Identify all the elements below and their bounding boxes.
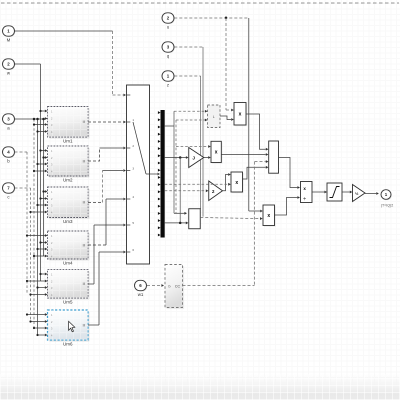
svg-text:J: J (192, 156, 195, 161)
svg-text:2: 2 (132, 144, 134, 148)
svg-text:w: w (7, 71, 11, 76)
svg-text:3: 3 (132, 167, 134, 171)
svg-text:6: 6 (132, 248, 134, 252)
svg-text:CC: CC (175, 285, 181, 289)
svg-text:Um1: Um1 (63, 139, 73, 144)
svg-text:b: b (7, 159, 10, 164)
svg-text:M: M (7, 38, 11, 43)
svg-text:z: z (167, 83, 169, 88)
svg-text:Um3: Um3 (63, 219, 73, 224)
svg-text:Um5: Um5 (63, 300, 73, 305)
svg-text:÷: ÷ (303, 198, 306, 203)
svg-text:x: x (239, 112, 242, 118)
svg-text:4: 4 (132, 195, 134, 199)
svg-text:5: 5 (132, 221, 134, 225)
svg-text:q: q (167, 54, 170, 59)
svg-text:c: c (7, 195, 10, 200)
svg-text:M: M (83, 201, 86, 205)
svg-text:L: L (213, 115, 215, 119)
svg-text:M: M (83, 282, 86, 286)
svg-text:u: u (167, 25, 170, 30)
svg-text:Um6: Um6 (63, 342, 73, 347)
svg-text:b: b (169, 285, 171, 289)
svg-text:M: M (83, 243, 86, 247)
svg-text:1: 1 (132, 118, 134, 122)
svg-text:w1: w1 (138, 292, 144, 297)
svg-text:M: M (83, 323, 86, 327)
svg-text:a: a (7, 126, 10, 131)
svg-text:Um4: Um4 (63, 261, 73, 266)
svg-text:x: x (267, 213, 270, 219)
svg-text:x: x (235, 180, 238, 186)
svg-text:M: M (83, 159, 86, 163)
svg-text:(T=IQ)2: (T=IQ)2 (381, 203, 393, 207)
svg-text:M: M (83, 120, 86, 124)
svg-text:Um2: Um2 (63, 178, 73, 183)
svg-text:x: x (215, 150, 218, 156)
